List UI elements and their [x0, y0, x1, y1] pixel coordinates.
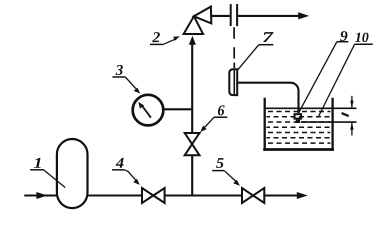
- gauge needle: [141, 104, 151, 117]
- wire riser lower segment: [191, 155, 193, 195]
- dashed signal line: [233, 27, 235, 68]
- label 10 underline: [355, 43, 373, 45]
- flow arrow top outlet: [298, 12, 309, 19]
- label 4 leader: [124, 170, 136, 181]
- label 2 underline: [150, 43, 162, 45]
- valve 6 (shut-off valve, vertical): [185, 133, 200, 155]
- electrode 9 (contact in liquid): [295, 114, 302, 118]
- transducer 7 (contact device): [229, 69, 237, 95]
- label 5 digit: [216, 158, 224, 168]
- extension line electrode tip level: [301, 121, 357, 123]
- label 7 underline: [259, 44, 274, 46]
- label 9 digit: [340, 31, 347, 41]
- label 5 underline: [212, 170, 224, 172]
- label 2 leader: [162, 39, 176, 45]
- label 4 digit: [116, 158, 124, 168]
- label 3 digit: [116, 65, 123, 75]
- wire valve 4 to valve 5: [165, 194, 242, 196]
- wire riser middle segment: [191, 44, 193, 133]
- label 9 underline: [337, 41, 349, 43]
- dimension arrow upper: [351, 96, 353, 109]
- wire top outlet segment 1: [211, 15, 230, 17]
- wire inlet bottom-left: [24, 194, 57, 196]
- liquid hatching: [267, 112, 331, 144]
- flow arrow inlet: [36, 192, 47, 199]
- label 10 leader: [319, 44, 355, 116]
- valve 4 (shut-off valve): [142, 188, 165, 203]
- wire transducer to electrode: [238, 83, 298, 114]
- label 9 leader: [299, 42, 337, 113]
- liquid surface line: [266, 107, 357, 109]
- label 6 underline: [214, 116, 227, 118]
- label 1 underline: [30, 169, 43, 171]
- label 1 digit: [34, 158, 41, 168]
- wire bottom outlet: [264, 194, 298, 196]
- label 6 digit: [218, 105, 225, 115]
- label 3 leader: [125, 77, 136, 89]
- label 3 underline: [112, 76, 125, 78]
- gauge stub wire: [163, 108, 192, 110]
- flow arrow riser up into valve 2: [189, 36, 196, 45]
- vessel 1 (gas cylinder): [57, 139, 88, 208]
- label l (immersion depth): [342, 113, 349, 116]
- label 2 digit: [152, 32, 160, 42]
- label 4 underline: [112, 169, 124, 171]
- label 10 digit: [355, 33, 368, 42]
- label 7 leader: [238, 45, 259, 70]
- label 1 leader: [44, 170, 66, 188]
- dimension arrow lower: [351, 122, 353, 135]
- valve 5 (shut-off valve): [242, 188, 264, 203]
- label 5 leader: [224, 171, 236, 182]
- label 6 leader: [204, 117, 214, 128]
- tank walls: [265, 98, 333, 151]
- wire vessel to valve 4: [88, 194, 142, 196]
- valve 2 (safety relief valve, angle type): [184, 16, 204, 34]
- flow arrow bottom outlet: [297, 192, 308, 199]
- connector break bars: [230, 4, 232, 26]
- tank bottom: [263, 148, 334, 151]
- wire top outlet segment 2: [238, 15, 300, 17]
- gauge 3 (pressure gauge): [133, 95, 164, 126]
- label 7 digit: [263, 32, 274, 42]
